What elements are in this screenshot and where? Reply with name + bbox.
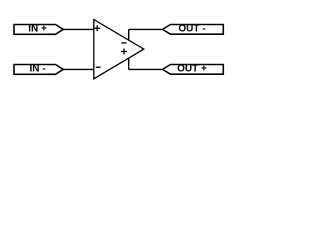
port OUT+	[163, 64, 224, 75]
svg-text:OUT +: OUT +	[177, 64, 207, 75]
svg-text:OUT -: OUT -	[178, 24, 205, 35]
wire OUT+	[129, 68, 163, 70]
op-amp non-inverted output marker +	[121, 49, 127, 55]
wire IN- to op-amp	[63, 68, 94, 70]
svg-text:IN -: IN -	[29, 64, 45, 75]
op-amp non-inverting input marker +	[94, 25, 100, 31]
op-amp inverted output marker -	[121, 42, 126, 44]
wire OUT-	[129, 28, 163, 30]
port IN+	[14, 24, 63, 35]
op-amp U1 triangle body	[94, 20, 144, 79]
port OUT-	[163, 24, 224, 35]
output stub OUT+ vertical	[128, 58, 130, 69]
svg-text:IN +: IN +	[28, 24, 47, 35]
op-amp inverting input marker -	[96, 66, 101, 68]
output stub OUT- vertical	[128, 29, 130, 40]
port IN-	[14, 64, 63, 75]
wire IN+ to op-amp	[63, 28, 94, 30]
